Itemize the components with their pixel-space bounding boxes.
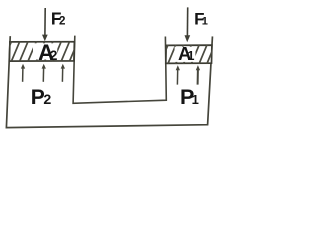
svg-text:1: 1	[192, 92, 199, 107]
label A1	[178, 43, 194, 64]
pressure arrow under A1 (right)	[196, 65, 200, 85]
container vessel inner step wall (left cylinder right wall, channel top, right cylinder left wall)	[73, 36, 166, 103]
force arrow F2 (downward onto piston A2)	[42, 8, 48, 41]
force arrow F1 (downward onto piston A1)	[185, 7, 191, 42]
svg-text:1: 1	[187, 48, 194, 63]
label P1	[180, 85, 199, 109]
label F2	[51, 9, 66, 29]
pressure arrow under A2 (right)	[61, 64, 65, 82]
pressure arrow under A1 (left)	[176, 65, 180, 84]
svg-text:1: 1	[202, 16, 208, 28]
piston A1 body	[160, 45, 215, 64]
label A2	[38, 40, 58, 65]
label F1	[194, 10, 208, 29]
svg-text:2: 2	[59, 15, 65, 28]
piston A2 body	[3, 41, 78, 61]
label P2	[31, 86, 52, 109]
svg-text:2: 2	[50, 48, 58, 63]
pressure arrow under A2 (middle)	[42, 64, 46, 82]
svg-text:2: 2	[43, 92, 51, 108]
container vessel outer wall (left wall, bottom, right wall)	[6, 37, 212, 128]
pressure arrow under A2 (left)	[21, 64, 25, 82]
